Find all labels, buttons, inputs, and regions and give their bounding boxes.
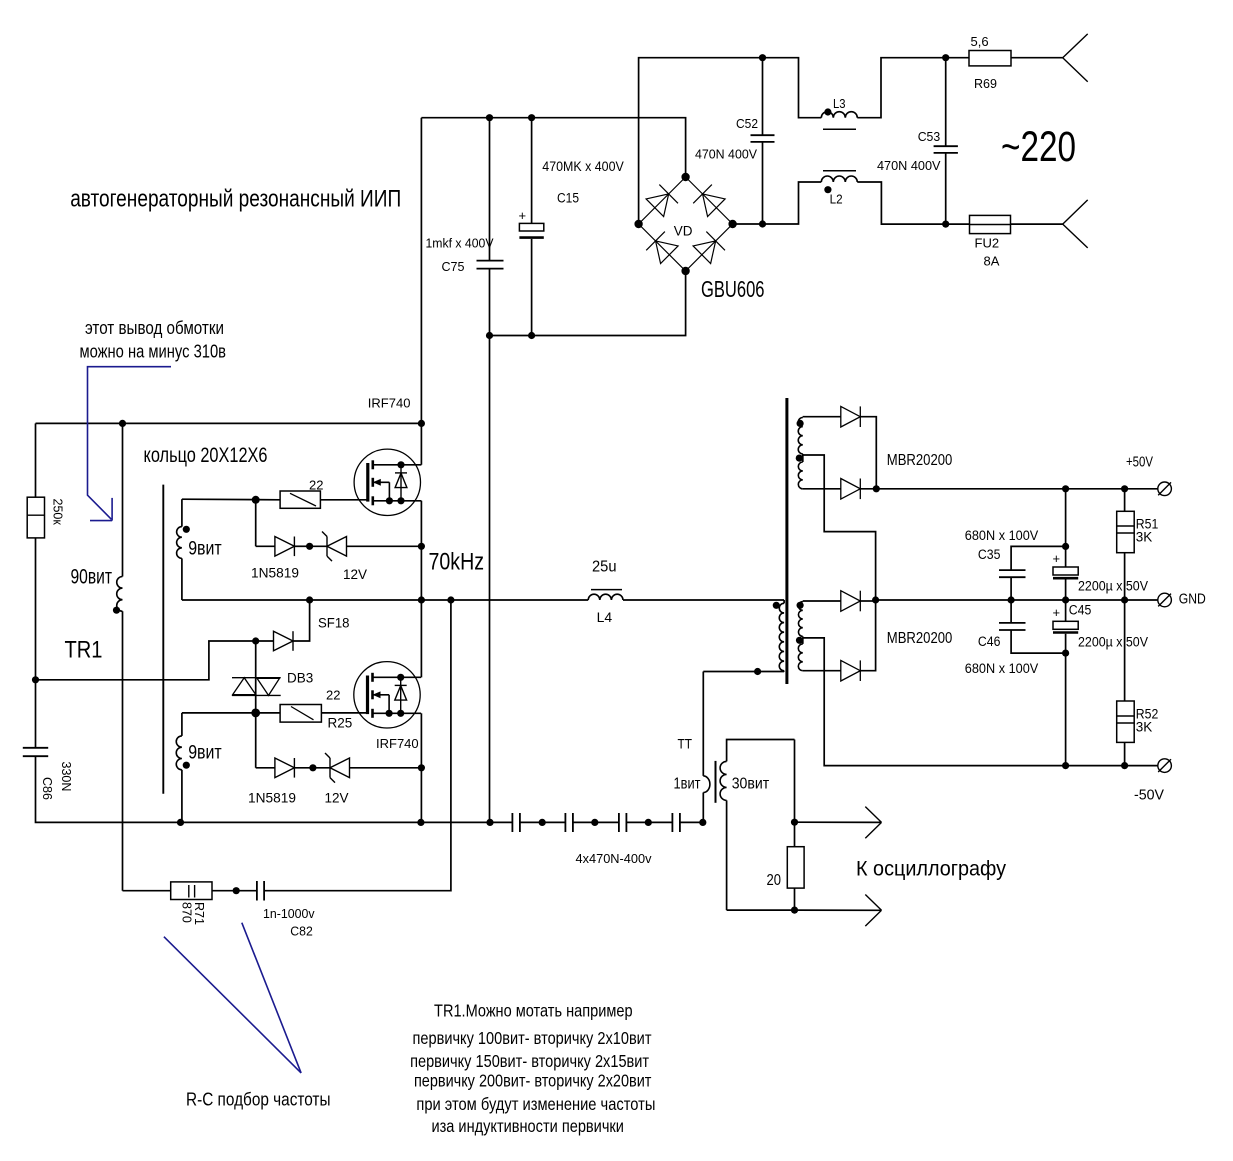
svg-text:IRF740: IRF740	[376, 736, 419, 751]
svg-text:DB3: DB3	[287, 671, 313, 686]
svg-text:FU2: FU2	[975, 236, 1000, 251]
mosfet upper IRF740	[354, 449, 420, 515]
svg-text:этот вывод обмотки: этот вывод обмотки	[85, 318, 224, 338]
wire: TR1 primary bottom to R71	[123, 890, 171, 892]
node: TR1 primary top	[119, 420, 126, 427]
fuse FU2	[970, 215, 1011, 233]
svg-text:22: 22	[326, 688, 340, 703]
node: bridge bottom vertex	[681, 267, 689, 275]
wire: AC line top - bridge left vertex up and right to C52 node	[639, 58, 822, 224]
transformer T2 core	[785, 398, 788, 684]
diac DB3	[255, 641, 257, 713]
node: C82 branch on mid rail	[447, 596, 454, 603]
node: C15 top	[528, 114, 535, 121]
wire: secondary C top to diode	[803, 600, 841, 602]
wire: AC line bottom - bridge right vertex to L2	[733, 182, 822, 224]
node: upper gate node	[252, 496, 260, 504]
resistor R52 3K	[1124, 600, 1126, 701]
annotation: blue pointer line RC 1	[164, 937, 301, 1073]
wire: upper center tap to GND	[803, 455, 876, 600]
capacitor series bank 4x470N	[511, 813, 513, 832]
node: upper clamp right	[418, 543, 425, 550]
svg-text:12V: 12V	[325, 791, 349, 806]
svg-text:3K: 3K	[1136, 530, 1153, 545]
svg-text:2200µ x 50V: 2200µ x 50V	[1078, 635, 1148, 650]
wire: gate node to R25	[256, 712, 280, 714]
svg-text:К осциллографу: К осциллографу	[856, 858, 1006, 881]
transformer TR1 primary 90vit	[122, 423, 124, 576]
resistor R69	[969, 51, 1011, 66]
svg-text:C35: C35	[978, 547, 1001, 562]
svg-text:25u: 25u	[592, 559, 617, 576]
node: SF18 branch on mid rail	[306, 596, 313, 603]
node: lower gate node	[251, 709, 260, 718]
svg-text:C75: C75	[442, 259, 465, 274]
winding T2 secondary A	[802, 416, 804, 419]
wire: +310V top rail	[36, 422, 422, 424]
capacitor C82	[236, 890, 257, 892]
winding T2 secondary C	[802, 600, 804, 603]
wire: lower center tap to -50V rail	[803, 638, 1158, 766]
node: upper clamp mid	[306, 543, 313, 550]
bridge diode bottom-right	[693, 241, 716, 264]
capacitor C75	[489, 118, 491, 261]
wire: upper clamp mid	[294, 545, 309, 547]
wire: plus rail down to half-bridge	[420, 118, 422, 465]
node: SF18 anode node	[252, 637, 259, 644]
svg-text:~220: ~220	[1001, 123, 1076, 171]
svg-text:30вит: 30вит	[732, 776, 770, 793]
wire: upper gate node down to clamp row	[255, 500, 257, 547]
diode MBR upper-1	[841, 406, 861, 427]
node: lower 9vit bottom on rail	[177, 819, 184, 826]
node: cap bank junction c	[645, 819, 652, 826]
wire: secondary B bottom to diode	[803, 488, 841, 490]
wire: SF18 feedback row	[36, 641, 256, 680]
winding T2 secondary B	[802, 455, 804, 462]
svg-text:R69: R69	[974, 76, 997, 91]
svg-text:MBR20200: MBR20200	[887, 452, 953, 469]
resistor 22 upper	[280, 491, 320, 508]
terminal -50V	[1158, 759, 1172, 773]
node: scope upper node	[791, 819, 798, 826]
svg-text:первичку 100вит- вторичку 2х10: первичку 100вит- вторичку 2х10вит	[413, 1028, 652, 1048]
svg-text:1N5819: 1N5819	[251, 566, 299, 581]
svg-text:1mkf x 400V: 1mkf x 400V	[426, 236, 494, 251]
wire: upper gate resistor to gate	[320, 499, 367, 501]
svg-text:470MK x 400V: 470MK x 400V	[542, 159, 624, 174]
wire: diode1 cathode to +50V corner	[860, 417, 876, 489]
winding TR1 upper 9vit	[181, 499, 183, 526]
wire: mid rail	[182, 599, 588, 601]
wire: diode3 cathode to GND node	[860, 600, 875, 602]
svg-text:C46: C46	[978, 634, 1001, 649]
resistor 250k	[27, 497, 44, 538]
wire: R69 to line terminal	[1011, 57, 1063, 59]
node: bridge right vertex	[728, 220, 736, 228]
svg-text:C15: C15	[557, 191, 579, 206]
winding T2 secondary D	[802, 638, 804, 644]
svg-text:GBU606: GBU606	[701, 276, 765, 302]
wire: left vertical middle	[35, 538, 37, 748]
svg-text:C86: C86	[40, 777, 54, 800]
node: C52 bottom junction	[759, 220, 766, 227]
svg-text:TR1.Можно мотать например: TR1.Можно мотать например	[434, 1001, 633, 1021]
svg-text:R-C подбор частоты: R-C подбор частоты	[186, 1090, 331, 1110]
node: R51 bottom on GND	[1121, 596, 1128, 603]
winding TT secondary 30vit	[727, 740, 795, 762]
node: top rail right corner	[418, 420, 425, 427]
wire: secondary A top to diode	[803, 416, 841, 418]
winding T2 primary	[783, 600, 785, 603]
node: C75 top	[486, 114, 493, 121]
wire: +50V rail	[876, 488, 1157, 490]
svg-text:иза индуктивности первички: иза индуктивности первички	[431, 1116, 624, 1136]
svg-text:20: 20	[767, 872, 782, 889]
wire: R71 to C82	[212, 890, 236, 892]
node: elco upper top	[1062, 485, 1069, 492]
node: midpoint rail junction	[418, 596, 425, 603]
svg-text:TR1: TR1	[65, 637, 103, 664]
svg-text:470N 400V: 470N 400V	[877, 158, 941, 173]
svg-text:C45: C45	[1069, 603, 1092, 618]
annotation: blue pointer line RC 2	[242, 923, 301, 1073]
wire: lower gate node down to clamp row	[255, 713, 257, 768]
bridge rectifier VD diamond	[639, 177, 733, 271]
inductor L4 25u	[588, 594, 623, 600]
capacitor C35	[1011, 546, 1066, 570]
node: C52 top junction	[759, 54, 766, 61]
zener 12V upper	[310, 545, 327, 547]
svg-text:250к: 250к	[51, 499, 65, 526]
arrow: to oscilloscope upper	[795, 821, 882, 823]
node: bridge top vertex	[681, 173, 689, 181]
mosfet lower IRF740	[354, 662, 420, 728]
svg-text:4x470N-400v: 4x470N-400v	[576, 851, 652, 866]
wire: bridge plus rail (top)	[421, 118, 685, 177]
resistor R25 22	[280, 705, 321, 723]
annotation: blue pointer to winding terminal	[88, 367, 172, 520]
node: cap bank junction a	[539, 819, 546, 826]
node: feedback tap on left vertical	[32, 676, 39, 683]
bridge diode right-top	[703, 194, 726, 217]
svg-text:GND: GND	[1179, 592, 1206, 608]
node: C35 bottom on GND	[1008, 596, 1015, 603]
svg-text:+: +	[1053, 605, 1061, 620]
svg-text:-50V: -50V	[1134, 788, 1164, 804]
capacitor C86	[23, 747, 48, 749]
svg-text:VD: VD	[674, 224, 693, 239]
node: GND junction	[872, 596, 879, 603]
svg-text:2200µ x 50V: 2200µ x 50V	[1078, 579, 1148, 594]
winding TR1 lower 9vit	[181, 713, 183, 736]
node: C75 branch on bottom rail	[486, 819, 493, 826]
capacitor C46	[1010, 600, 1012, 623]
svg-text:IRF740: IRF740	[368, 395, 411, 410]
svg-text:первичку 200вит- вторичку 2х20: первичку 200вит- вторичку 2х20вит	[414, 1070, 652, 1090]
svg-text:при этом будут изменение часто: при этом будут изменение частоты	[416, 1094, 655, 1114]
svg-text:C53: C53	[918, 129, 941, 144]
wire: primary bottom to TT	[703, 671, 784, 673]
node: R71-C82 node	[233, 887, 240, 894]
node: R52 bottom	[1121, 762, 1128, 769]
svg-text:первичку 150вит- вторичку 2х15: первичку 150вит- вторичку 2х15вит	[410, 1051, 649, 1071]
svg-text:3K: 3K	[1136, 720, 1153, 735]
transformer TT core	[715, 761, 717, 803]
wire: upper gate row left	[182, 498, 280, 501]
node: MOSFET source rail junction	[417, 819, 424, 826]
svg-text:5,6: 5,6	[971, 34, 989, 49]
node: C53 bottom junction	[942, 221, 949, 228]
svg-text:кольцо 20X12X6: кольцо 20X12X6	[144, 444, 268, 467]
node: elco lower bottom on -50V	[1062, 762, 1069, 769]
node: C75 bottom rail junction	[486, 332, 493, 339]
diode MBR upper-2	[841, 479, 861, 500]
terminal GND	[1158, 593, 1172, 607]
wire: L2 right to FU2	[857, 182, 969, 224]
diode SF18	[256, 640, 274, 642]
bridge diode left-top	[646, 194, 669, 217]
wire: mid rail to transformer primary	[623, 599, 784, 601]
inductor L3	[821, 112, 857, 118]
node: cap bank junction b	[591, 819, 598, 826]
svg-text:870: 870	[180, 902, 194, 923]
svg-text:L2: L2	[830, 192, 843, 207]
svg-text:9вит: 9вит	[188, 743, 222, 764]
node: lower clamp mid	[309, 764, 316, 771]
svg-text:автогенераторный резонансный И: автогенераторный резонансный ИИП	[70, 186, 401, 213]
svg-text:MBR20200: MBR20200	[887, 630, 953, 647]
node: cap bank junction d	[699, 819, 706, 826]
capacitor C52	[762, 58, 764, 136]
node: scope lower node	[791, 907, 798, 914]
winding TT primary 1vit	[702, 672, 704, 776]
svg-text:L4: L4	[597, 609, 613, 625]
svg-text:SF18: SF18	[318, 616, 350, 631]
capacitor C53	[945, 58, 947, 147]
svg-text:9вит: 9вит	[188, 539, 222, 560]
node: C46 bottom tie	[1062, 650, 1069, 657]
svg-text:C52: C52	[736, 116, 758, 131]
wire: C82 to mid rail branch	[264, 600, 451, 891]
zener 12V lower	[313, 767, 330, 769]
resistor 20	[787, 847, 804, 888]
wire: lower gate row left	[182, 712, 256, 714]
node: elco upper bottom	[1062, 596, 1069, 603]
wire: GND rail	[876, 599, 1158, 601]
bridge diode bottom-left	[656, 241, 679, 264]
svg-text:8A: 8A	[984, 254, 1000, 269]
capacitor C45 lower electrolytic	[1065, 600, 1067, 621]
wire: FU2 to line terminal	[1011, 223, 1063, 225]
wire: diode4 cathode up to GND	[860, 601, 875, 671]
wire: R25 to lower gate	[321, 712, 367, 714]
wire: bottom rail segment 1	[511, 821, 513, 823]
connector: mains line top	[1063, 34, 1088, 58]
diode 1N5819 upper	[256, 545, 275, 547]
wire: 30vit right side lower	[794, 888, 796, 910]
svg-text:680N x 100V: 680N x 100V	[965, 661, 1039, 676]
svg-text:+50V: +50V	[1126, 455, 1153, 471]
svg-text:12V: 12V	[343, 567, 367, 582]
connector: mains line bottom	[1063, 200, 1088, 224]
node: C53 top junction	[942, 54, 949, 61]
svg-text:1вит: 1вит	[674, 776, 702, 793]
wire: C75 bottom down across mid rail to bottom rail	[489, 269, 491, 823]
wire: 30vit right side upper	[794, 740, 796, 847]
svg-text:R25: R25	[328, 716, 353, 731]
wire: bridge minus rail (bottom)	[490, 271, 686, 336]
arrow: to oscilloscope lower	[795, 909, 882, 911]
wire: diode2 cathode	[860, 488, 876, 490]
svg-text:1N5819: 1N5819	[248, 791, 296, 806]
svg-text:TT: TT	[678, 736, 693, 752]
capacitor C15 electrolytic	[531, 118, 533, 224]
diode MBR lower-4	[841, 660, 861, 681]
svg-text:330N: 330N	[59, 762, 73, 792]
node: C35 top tie	[1062, 543, 1069, 550]
node: bridge left vertex	[634, 220, 642, 228]
wire: left vertical lower to bottom rail	[36, 756, 513, 822]
svg-text:22: 22	[309, 478, 323, 493]
wire: left vertical upper	[35, 423, 37, 497]
svg-text:70kHz: 70kHz	[429, 549, 485, 576]
svg-text:можно на минус 310в: можно на минус 310в	[80, 342, 227, 362]
svg-text:680N x 100V: 680N x 100V	[965, 528, 1039, 543]
node: C15 bottom	[528, 332, 535, 339]
wire: lower clamp mid	[294, 767, 313, 769]
node: R51 top	[1121, 485, 1128, 492]
resistor R71	[171, 882, 212, 900]
inductor L2	[821, 176, 857, 182]
node: primary bottom dot	[754, 668, 761, 675]
diode MBR lower-3	[841, 591, 861, 612]
node: +50V junction	[873, 485, 880, 492]
resistor R51 3K	[1124, 489, 1126, 512]
diode 1N5819 lower	[256, 767, 275, 769]
svg-text:+: +	[1053, 551, 1061, 566]
terminal +50V	[1158, 482, 1172, 496]
wire: lower source vertical	[420, 713, 422, 822]
svg-text:1n-1000v: 1n-1000v	[263, 906, 315, 921]
svg-text:C82: C82	[290, 924, 313, 939]
wire: SF18 cathode up to mid rail	[293, 600, 310, 641]
wire: L3 right to C53 top node	[857, 58, 969, 118]
capacitor C45 upper electrolytic	[1065, 489, 1067, 567]
svg-text:90вит: 90вит	[71, 566, 113, 589]
wire: half-bridge midpoint vertical	[420, 501, 422, 678]
transformer TR1 core	[162, 485, 164, 794]
node: lower clamp right on vertical	[418, 764, 425, 771]
svg-text:+: +	[519, 208, 527, 223]
svg-text:L3: L3	[833, 96, 846, 111]
svg-text:470N 400V: 470N 400V	[695, 147, 757, 162]
wire: secondary D bottom to diode	[803, 670, 841, 672]
